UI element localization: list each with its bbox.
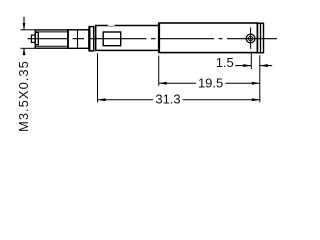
extension line housing face xyxy=(97,53,99,102)
extension line thread top xyxy=(20,29,34,31)
hole vertical crosshair xyxy=(250,27,252,49)
shank divider line xyxy=(77,30,79,48)
nut housing body xyxy=(96,26,159,51)
washer collar xyxy=(89,27,94,51)
end cap xyxy=(257,23,263,53)
extension line hole center xyxy=(250,52,252,69)
extension line cylinder face xyxy=(158,56,160,86)
dim 19.5 line left xyxy=(159,82,196,84)
thread minor diameter line top xyxy=(35,31,68,33)
extension line cylinder end xyxy=(259,55,261,102)
thread dimension line lower xyxy=(23,48,25,55)
dim 1.5 line left xyxy=(235,65,251,67)
svg-text:19.5: 19.5 xyxy=(198,75,223,90)
notch gap mask on housing top xyxy=(108,25,115,27)
dim 19.5 arrow right-pointing xyxy=(252,82,260,85)
extension line thread bottom xyxy=(20,47,34,49)
svg-text:31.3: 31.3 xyxy=(155,92,180,107)
thread runout collar xyxy=(35,33,38,45)
dim 31.3 line right xyxy=(183,99,260,101)
dim 1.5 arrow left-pointing xyxy=(260,64,268,67)
thread dimension line upper xyxy=(23,17,25,30)
main cylinder body xyxy=(159,23,257,53)
threaded stem body xyxy=(35,30,68,48)
thread minor diameter line bottom xyxy=(35,45,68,47)
dim 31.3 line left xyxy=(98,99,154,101)
contact tip pin xyxy=(31,35,35,42)
hole inner circle xyxy=(249,36,253,40)
notch dimple xyxy=(108,25,115,28)
dim 31.3 arrow right-pointing xyxy=(252,98,260,101)
thread dimension arrow down xyxy=(23,23,26,30)
washer collar thick left face xyxy=(88,27,90,51)
svg-text:1.5: 1.5 xyxy=(216,55,234,70)
dim 31.3 arrow left-pointing xyxy=(98,98,106,101)
dim 19.5 line right xyxy=(225,82,259,84)
adjustment window xyxy=(103,32,121,46)
dim 1.5 line right xyxy=(260,65,272,67)
hole outer circle xyxy=(246,34,255,43)
dim 19.5 arrow left-pointing xyxy=(159,82,167,85)
centerline (dash-dot axis) xyxy=(28,38,278,40)
svg-text:M3.5X0.35: M3.5X0.35 xyxy=(16,60,31,132)
end cap groove line xyxy=(260,23,262,53)
main cylinder thick left face xyxy=(158,23,160,53)
plain shank section xyxy=(68,30,89,49)
thread dimension arrow up xyxy=(23,48,26,55)
dim 1.5 arrow right-pointing xyxy=(243,64,251,67)
thread end divider xyxy=(67,30,69,49)
